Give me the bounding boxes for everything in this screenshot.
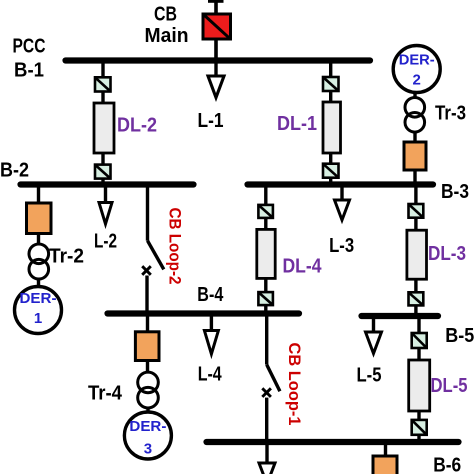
line section DL-5 [409,360,430,411]
svg-text:PCC: PCC [13,36,46,58]
svg-text:B-4: B-4 [197,284,224,306]
wire [146,361,149,373]
label CB Loop-2 [166,208,185,285]
wire [264,278,267,293]
wire [417,348,420,361]
label B-5 [445,325,474,347]
transformer Tr-2 [29,244,49,279]
wire L-3 [340,185,343,201]
label DL-5 [431,375,468,397]
svg-text:L-3: L-3 [329,235,354,257]
line section DL-2 [94,103,114,153]
svg-text:Main: Main [145,25,189,47]
label B-3 [441,181,469,203]
generator DER-1 [15,287,62,334]
disconnector switch DL-4 lower [258,292,273,305]
wire L-4 [210,314,213,332]
label B-2 [0,160,29,182]
disconnector switch DL-5 upper [412,333,427,348]
load arrow L-2 [99,203,112,225]
wire [413,170,416,185]
bus B-5 [362,313,439,319]
label L-3 [329,235,354,257]
wire [417,435,420,442]
disconnector switch DL-5 lower [412,420,427,435]
load arrow L-5 [366,332,382,354]
svg-text:L-1: L-1 [198,110,224,132]
wire L-5 [372,316,375,333]
wire transformer stub below B-6 [384,442,387,457]
svg-text:2: 2 [413,72,421,89]
wire [329,91,332,103]
svg-text:B-3: B-3 [441,181,469,203]
load arrow L-1 [208,76,224,98]
label DL-1 [277,113,317,135]
wire [414,218,417,231]
svg-text:Tr-4: Tr-4 [88,383,123,405]
svg-text:Tr-2: Tr-2 [49,246,84,268]
load arrow below B-6 [259,463,275,474]
label CB Loop-1 [285,343,304,426]
wire L-1 [214,61,217,77]
generator DER-2 [393,46,440,93]
svg-text:3: 3 [144,441,152,458]
label DL-2 [117,115,157,137]
wire [329,153,332,165]
top feeder tick [208,0,224,3]
generator DER-3 [124,412,171,459]
disconnector switch DL-2 lower [95,165,111,179]
bus B-2 [21,181,194,187]
wire DL-5 branch [417,316,420,334]
wire [414,305,417,316]
wire [37,234,40,245]
interconnection transformer block DER-1 [27,203,52,234]
wire DL-3 branch [414,185,417,206]
svg-text:B-5: B-5 [445,325,474,347]
label L-2 [94,231,117,253]
wire Tr-2 branch [37,185,40,205]
svg-text:CB: CB [154,4,177,26]
disconnector switch DL-1 lower [323,164,339,178]
interconnection transformer block DER-3 [135,332,159,361]
svg-text:B-2: B-2 [0,160,29,182]
wire [101,153,104,165]
wire Tr-4 branch [146,314,149,333]
svg-text:DER-: DER- [399,52,435,69]
circuit breaker CB Main [203,14,231,39]
wire [264,305,267,313]
wire DL-4 branch [264,185,267,207]
label DL-3 [428,243,466,265]
label CB Main [145,4,189,48]
wire [146,408,149,413]
wire [414,279,417,293]
svg-text:DER-: DER- [129,418,166,435]
wire [264,218,267,230]
svg-text:L-4: L-4 [198,364,223,386]
wire CB Loop-2 lower [145,276,148,314]
disconnector switch DL-1 upper [323,77,339,91]
load arrow L-4 [204,331,218,355]
label B-6 [433,455,461,474]
label L-5 [357,365,382,387]
svg-text:1: 1 [34,310,42,327]
svg-text:L-5: L-5 [357,365,382,387]
wire main feeder above CB [214,0,218,15]
interconnection transformer block lower right [373,456,397,474]
label L-1 [198,110,224,132]
wire L-2 [104,185,107,204]
wire [101,91,104,104]
bus B-6 [207,439,459,445]
label B-4 [197,284,224,306]
wire [417,411,420,421]
bus B-4 [108,310,300,316]
disconnector switch DL-3 lower [409,292,424,305]
bus B-1 [66,57,371,63]
wire DL-1 branch top [329,61,332,79]
svg-text:DL-2: DL-2 [117,115,157,137]
wire CB Loop-2 upper [146,185,149,241]
svg-text:DL-4: DL-4 [283,256,323,278]
svg-text:DL-3: DL-3 [428,243,466,265]
label Tr-2 [49,246,84,268]
svg-text:DL-5: DL-5 [431,375,468,397]
wire [413,132,416,143]
disconnector switch DL-4 upper [258,205,273,218]
svg-text:L-2: L-2 [94,231,117,253]
transformer Tr-4 [138,372,159,408]
open contact mark CB Loop-2 [142,266,151,275]
svg-text:CB Loop-2: CB Loop-2 [166,208,185,285]
line section DL-3 [407,230,427,279]
line section DL-4 [257,229,275,278]
wire [37,279,40,288]
svg-text:DER-: DER- [20,290,57,307]
svg-text:CB Loop-1: CB Loop-1 [285,343,304,426]
wire CB Loop-1 lower [265,398,268,442]
wire [413,92,416,98]
label Tr-4 [88,383,123,405]
label L-4 [198,364,223,386]
svg-text:B-6: B-6 [433,455,461,474]
wire CB to bus B-1 [214,39,218,61]
svg-text:Tr-3: Tr-3 [435,103,466,125]
open breaker blade CB Loop-2 [148,241,164,270]
open contact mark CB Loop-1 [262,388,271,397]
wire CB Loop-1 upper [265,314,268,365]
interconnection transformer block DER-2 [404,142,426,170]
wire [329,178,332,185]
wire load below B-6 [265,442,268,464]
transformer Tr-3 [405,98,425,133]
load arrow L-3 [335,200,350,220]
wire DL-2 branch top [101,61,104,79]
open breaker blade CB Loop-1 [267,365,280,392]
disconnector switch DL-3 upper [409,204,424,218]
line section DL-1 [323,102,341,153]
label DL-4 [283,256,323,278]
disconnector switch DL-2 upper [95,77,111,91]
label Tr-3 [435,103,466,125]
label PCC B-1 [13,36,46,82]
svg-text:B-1: B-1 [14,60,44,82]
bus B-3 [248,181,434,187]
svg-text:DL-1: DL-1 [277,113,317,135]
wire [101,179,104,185]
